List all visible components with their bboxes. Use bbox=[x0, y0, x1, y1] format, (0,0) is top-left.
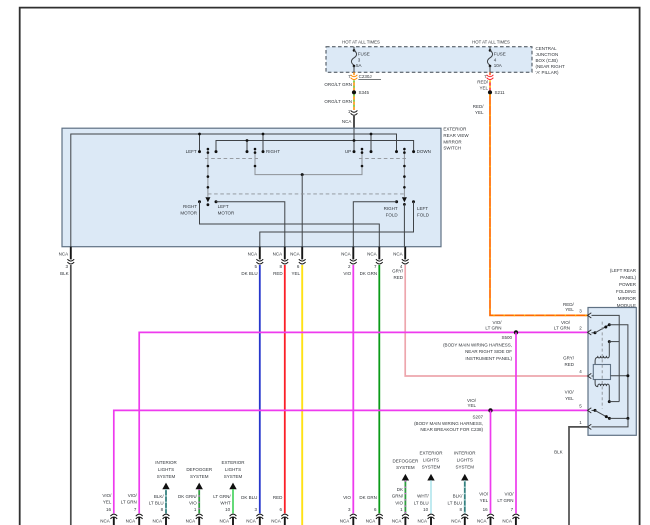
svg-text:EXTERIOR: EXTERIOR bbox=[419, 451, 443, 456]
label module wire color VIO/LT GRN bbox=[554, 320, 571, 331]
svg-text:NCA: NCA bbox=[246, 519, 256, 524]
svg-text:VIO/: VIO/ bbox=[561, 320, 571, 325]
switch wiper (fold select, right) bbox=[402, 148, 407, 203]
label wire color YEL bbox=[291, 271, 300, 276]
svg-text:GRY/: GRY/ bbox=[392, 268, 404, 273]
svg-text:5A: 5A bbox=[356, 63, 362, 68]
label wire color BLK/LT BLU bbox=[448, 494, 464, 506]
node contact DOWN bbox=[412, 150, 415, 153]
svg-text:YEL: YEL bbox=[103, 499, 112, 504]
connector bottom pin 1 (DKGRN/VIO) bbox=[402, 514, 409, 525]
module pin 1 connector bbox=[588, 424, 592, 429]
svg-text:NCA: NCA bbox=[367, 251, 377, 256]
svg-text:10: 10 bbox=[225, 507, 231, 512]
fuse 4 10A bbox=[487, 47, 492, 72]
svg-text:INTERIOR: INTERIOR bbox=[454, 451, 476, 456]
svg-text:BLK/: BLK/ bbox=[453, 494, 464, 499]
connector bottom pin 10 (WHT/LT BLU) bbox=[428, 514, 435, 525]
label RIGHT MOTOR bbox=[180, 204, 197, 216]
module pin 2 connector bbox=[588, 330, 592, 335]
svg-text:WHT: WHT bbox=[220, 501, 230, 506]
svg-text:SWITCH: SWITCH bbox=[443, 146, 461, 151]
svg-text:SYSTEM: SYSTEM bbox=[190, 474, 209, 479]
svg-text:NCA: NCA bbox=[392, 519, 402, 524]
connector NCA below switch pin 2 bbox=[350, 247, 357, 264]
node contact (right inner a) bbox=[370, 150, 373, 153]
svg-text:POWER: POWER bbox=[619, 282, 637, 287]
svg-text:VIO/: VIO/ bbox=[479, 492, 489, 497]
svg-text:VIO: VIO bbox=[189, 501, 197, 506]
label EXTERIOR REAR VIEW MIRROR SWITCH bbox=[443, 126, 469, 150]
label DEFOGGER SYSTEM label bbox=[186, 467, 213, 479]
label wire color VIO/YEL bbox=[479, 492, 489, 504]
svg-text:DK BLU: DK BLU bbox=[241, 495, 257, 500]
wire VIO/LT GRN net (module pin 2 / S500) bbox=[139, 332, 588, 513]
svg-text:BLK: BLK bbox=[554, 449, 563, 454]
svg-text:NCA: NCA bbox=[477, 519, 487, 524]
label wire color BLK/LT BLU bbox=[149, 494, 165, 506]
svg-text:MIRROR: MIRROR bbox=[618, 296, 637, 301]
wire VIO/LT GRN drop from S500 bbox=[515, 332, 517, 513]
svg-text:RED: RED bbox=[273, 495, 283, 500]
module relay arm (pin 5) bbox=[592, 409, 611, 420]
switch wiper (mirror select, left) bbox=[205, 148, 210, 206]
label wire color WHT/LT BLU bbox=[414, 494, 430, 506]
svg-text:LT GRN: LT GRN bbox=[497, 498, 513, 503]
svg-text:16: 16 bbox=[483, 507, 489, 512]
svg-text:SYSTEM: SYSTEM bbox=[224, 474, 243, 479]
label DEFOGGER SYSTEM label bbox=[393, 458, 420, 470]
connector bottom pin 6 (RED) bbox=[281, 514, 288, 525]
label S207 splice note bbox=[414, 415, 483, 433]
splice S211 bbox=[488, 90, 492, 94]
svg-text:NCA: NCA bbox=[342, 119, 352, 124]
svg-text:DK GRN/: DK GRN/ bbox=[178, 494, 198, 499]
svg-text:RIGHT: RIGHT bbox=[183, 204, 197, 209]
svg-text:FUSE: FUSE bbox=[494, 51, 506, 56]
svg-text:'A' PILLAR): 'A' PILLAR) bbox=[536, 70, 559, 75]
label wire color ORG/LT GRN (upper) bbox=[324, 82, 352, 87]
wire YEL tap drop bbox=[301, 175, 303, 247]
node contact LEFT FOLD bbox=[412, 200, 415, 203]
module motor M bbox=[593, 365, 610, 380]
connector bottom pin 8 (BLK/LT BLU) bbox=[461, 514, 468, 525]
svg-text:SYSTEM: SYSTEM bbox=[456, 464, 475, 469]
connector pin 1 at switch bbox=[351, 110, 358, 115]
power folding mirror module box bbox=[588, 308, 636, 436]
svg-text:S345: S345 bbox=[359, 90, 370, 95]
svg-text:FOLDING: FOLDING bbox=[616, 289, 637, 294]
wire drop to RIGHT contact bbox=[262, 134, 264, 152]
svg-text:GRN/: GRN/ bbox=[392, 494, 404, 499]
svg-text:MOTOR: MOTOR bbox=[218, 210, 235, 215]
svg-text:YEL: YEL bbox=[565, 396, 574, 401]
svg-text:MOTOR: MOTOR bbox=[180, 210, 197, 215]
wire DK BLU (switch pin 5 to bottom connector) bbox=[259, 265, 261, 513]
svg-text:NCA: NCA bbox=[290, 251, 300, 256]
node contact RIGHT FOLD bbox=[395, 200, 398, 203]
svg-text:LT GRN/: LT GRN/ bbox=[213, 494, 231, 499]
svg-text:YEL: YEL bbox=[479, 86, 488, 91]
svg-text:MIRROR: MIRROR bbox=[443, 139, 462, 144]
svg-text:VIO/: VIO/ bbox=[565, 389, 575, 394]
label S500 splice note bbox=[443, 335, 512, 361]
node contact LEFT MOTOR bbox=[215, 200, 218, 203]
svg-text:RED: RED bbox=[393, 275, 403, 280]
svg-text:RED/: RED/ bbox=[477, 80, 489, 85]
label wire color DK BLU bbox=[241, 495, 257, 500]
wire stub to EXTERIOR LIGHTS SYSTEM bbox=[232, 489, 234, 513]
svg-text:REAR VIEW: REAR VIEW bbox=[443, 133, 469, 138]
wire LEFT MOTOR contact to pin 8 bbox=[216, 202, 285, 247]
mechanical link (left rocker) bbox=[205, 158, 258, 160]
svg-text:HOT AT ALL TIMES: HOT AT ALL TIMES bbox=[472, 39, 510, 44]
module relay arm (pin 2) bbox=[592, 323, 611, 334]
wire LEFT FOLD contact to pin 5 bbox=[260, 202, 414, 247]
wire DK GRN (switch pin 7 to bottom connector) bbox=[378, 265, 380, 513]
svg-text:EXTERIOR: EXTERIOR bbox=[443, 126, 467, 131]
wire ORG/LT GRN (C230J to S345) bbox=[353, 80, 355, 90]
connector bottom pin 1 (DK GRN/VIO) bbox=[196, 514, 203, 525]
node fold wiper contact bbox=[403, 203, 406, 206]
connector NCA below switch pin 4 bbox=[402, 247, 409, 264]
wire stub to INTERIOR LIGHTS SYSTEM bbox=[165, 489, 167, 513]
connector bottom pin 3 (VIO) bbox=[350, 514, 357, 525]
wire RIGHT FOLD contact to pin 2 bbox=[353, 202, 396, 247]
svg-text:CENTRAL: CENTRAL bbox=[536, 46, 558, 51]
svg-text:FUSE: FUSE bbox=[358, 51, 370, 56]
svg-text:NCA: NCA bbox=[417, 519, 427, 524]
svg-text:RIGHT: RIGHT bbox=[266, 149, 280, 154]
module wire motor to bus bbox=[611, 375, 628, 377]
arrow to EXTERIOR LIGHTS SYSTEM bbox=[229, 483, 236, 490]
connector NCA below switch pin 5 bbox=[256, 247, 263, 264]
wire fuse 3 to connector C230J bbox=[353, 72, 355, 75]
label wire color LT GRN/WHT bbox=[213, 494, 231, 506]
module wire pin 3 to field windings bbox=[592, 315, 620, 401]
label fuse 4 value bbox=[494, 51, 506, 62]
svg-text:LIGHTS: LIGHTS bbox=[225, 467, 241, 472]
svg-text:NCA: NCA bbox=[100, 519, 110, 524]
connector C230J pin 7 bbox=[351, 75, 358, 80]
label wire color DK GRN bbox=[359, 495, 377, 500]
svg-text:BLK: BLK bbox=[60, 271, 69, 276]
label module wire color VIO/YEL bbox=[565, 389, 575, 401]
svg-text:NCA: NCA bbox=[393, 251, 403, 256]
splice S500 bbox=[514, 330, 518, 334]
svg-text:UP: UP bbox=[345, 149, 351, 154]
svg-text:NCA: NCA bbox=[502, 519, 512, 524]
svg-text:LT BLU: LT BLU bbox=[448, 500, 463, 505]
mechanical link (right rocker) bbox=[359, 158, 408, 160]
label wire color VIO/LT GRN bbox=[497, 492, 514, 504]
splice S345 bbox=[352, 90, 356, 94]
svg-text:EXTERIOR: EXTERIOR bbox=[221, 460, 245, 465]
arrow to INTERIOR LIGHTS SYSTEM bbox=[461, 474, 468, 481]
svg-text:BOX (CJB): BOX (CJB) bbox=[536, 58, 559, 63]
svg-text:PANEL): PANEL) bbox=[620, 275, 636, 280]
label EXTERIOR LIGHTS SYSTEM label bbox=[419, 451, 443, 470]
svg-text:(BODY MAIN WIRING HARNESS,: (BODY MAIN WIRING HARNESS, bbox=[414, 421, 483, 426]
label EXTERIOR LIGHTS SYSTEM label bbox=[221, 460, 245, 479]
svg-text:YEL: YEL bbox=[467, 403, 476, 408]
splice S207 bbox=[488, 408, 492, 412]
arrow to DEFOGGER SYSTEM bbox=[402, 474, 409, 481]
module junction field bottom bbox=[608, 400, 611, 403]
wire drop to contact x247 bbox=[246, 141, 248, 152]
svg-text:VIO: VIO bbox=[343, 271, 351, 276]
module wire field bottom junction bbox=[609, 401, 619, 403]
label RIGHT FOLD bbox=[384, 206, 399, 217]
svg-text:LT GRN: LT GRN bbox=[485, 326, 501, 331]
wire BLK (module pin 1 to page bottom) bbox=[569, 427, 588, 525]
exterior rear view mirror switch box bbox=[62, 128, 441, 247]
wire ORG/LT GRN (S345 to switch connector) bbox=[353, 94, 355, 110]
connector bottom pin 16 (VIO/YEL) bbox=[487, 514, 494, 525]
junction YEL tap bbox=[301, 173, 304, 176]
connector bottom pin 10 (LT GRN/WHT) bbox=[230, 514, 237, 525]
label wire color DK GRN/VIO bbox=[178, 494, 198, 506]
svg-text:SYSTEM: SYSTEM bbox=[422, 464, 441, 469]
connector bottom pin 6 (DK GRN) bbox=[376, 514, 383, 525]
connector NCA below switch pin 8 bbox=[281, 247, 288, 264]
label wire color RED bbox=[273, 271, 283, 276]
node contact UP bbox=[353, 150, 356, 153]
wire RED/YEL (S211 to mirror module pin 3) bbox=[490, 94, 588, 315]
label CENTRAL JUNCTION BOX (CJB) (NEAR RIGHT A PILLAR) bbox=[536, 46, 566, 75]
svg-text:FOLD: FOLD bbox=[417, 212, 430, 217]
svg-text:VIO/: VIO/ bbox=[504, 492, 514, 497]
svg-text:NCA: NCA bbox=[152, 519, 162, 524]
svg-text:YEL: YEL bbox=[475, 110, 484, 115]
svg-text:DOWN: DOWN bbox=[417, 149, 431, 154]
svg-text:RED: RED bbox=[564, 362, 574, 367]
label module wire color RED/YEL bbox=[563, 302, 575, 312]
node contact (left inner b) bbox=[246, 150, 249, 153]
arrow to DEFOGGER SYSTEM bbox=[196, 483, 203, 490]
label wire color ORG/LT GRN (lower) bbox=[324, 99, 352, 104]
wire GRY/RED (switch pin 4 to module pin 4) bbox=[405, 265, 588, 376]
svg-text:ORG/LT GRN: ORG/LT GRN bbox=[324, 82, 352, 87]
svg-text:NCA: NCA bbox=[59, 251, 69, 256]
svg-text:S500: S500 bbox=[501, 335, 512, 340]
svg-text:LIGHTS: LIGHTS bbox=[158, 467, 174, 472]
svg-text:S207: S207 bbox=[472, 415, 483, 420]
svg-text:SYSTEM: SYSTEM bbox=[157, 474, 176, 479]
svg-text:WHT/: WHT/ bbox=[417, 494, 429, 499]
svg-text:VIO/: VIO/ bbox=[492, 320, 502, 325]
module junction motor bus bbox=[626, 374, 629, 377]
mechanical link (select wipers) bbox=[208, 193, 405, 195]
svg-text:RIGHT: RIGHT bbox=[384, 206, 398, 211]
wire stub to INTERIOR LIGHTS SYSTEM bbox=[464, 480, 466, 513]
svg-text:(NEAR RIGHT: (NEAR RIGHT bbox=[536, 64, 566, 69]
label C230J bbox=[358, 74, 381, 80]
label wire color VIO bbox=[343, 495, 351, 500]
wire VIO/YEL drop from S207 bbox=[490, 410, 492, 513]
label wire color RED bbox=[273, 495, 283, 500]
wire YEL (switch pin 6 to page bottom) bbox=[301, 265, 303, 525]
connector NCA below switch pin 7 bbox=[376, 247, 383, 264]
svg-text:HOT AT ALL TIMES: HOT AT ALL TIMES bbox=[342, 39, 380, 44]
svg-text:NCA: NCA bbox=[186, 519, 196, 524]
connector NCA below switch pin 6 bbox=[299, 247, 306, 264]
module mechanical link (dashed) bbox=[601, 322, 603, 409]
connector bottom pin 3 (DK BLU) bbox=[256, 514, 263, 525]
svg-text:NEAR BREAKOUT FOR C238): NEAR BREAKOUT FOR C238) bbox=[420, 427, 483, 432]
junction NCA on second bus bbox=[353, 139, 356, 142]
svg-text:INSTRUMENT PANEL): INSTRUMENT PANEL) bbox=[465, 356, 512, 361]
wire fold contact to pin 4 bbox=[403, 204, 405, 246]
svg-text:(LEFT REAR: (LEFT REAR bbox=[610, 268, 637, 273]
svg-text:GRY/: GRY/ bbox=[563, 356, 575, 361]
label module wire color GRY/RED bbox=[563, 356, 575, 367]
svg-text:ORG/LT GRN: ORG/LT GRN bbox=[324, 99, 352, 104]
svg-text:LT GRN: LT GRN bbox=[554, 326, 570, 331]
wire VIO/YEL net (module pin 5 / S207) bbox=[114, 410, 588, 513]
svg-text:DK GRN: DK GRN bbox=[359, 495, 377, 500]
wire NCA feed inside switch to UP contact bbox=[353, 129, 355, 152]
module junction bus / ground bbox=[626, 417, 629, 420]
central junction box (CJB) bbox=[326, 47, 532, 72]
svg-text:NCA: NCA bbox=[451, 519, 461, 524]
label wire color DKGRN/VIO bbox=[392, 487, 404, 506]
svg-text:VIO/: VIO/ bbox=[128, 493, 138, 498]
svg-text:NCA: NCA bbox=[341, 251, 351, 256]
svg-text:DEFOGGER: DEFOGGER bbox=[393, 458, 420, 463]
module wire field top junction bbox=[609, 341, 619, 343]
label wire color DK BLU bbox=[241, 271, 257, 276]
label LEFT FOLD bbox=[417, 206, 430, 217]
wire drop to contact x371 bbox=[370, 134, 372, 152]
wire RIGHT MOTOR contact to pin 7 bbox=[200, 202, 380, 247]
label wire color BLK bbox=[60, 271, 69, 276]
module wire arm contact to motor bus bbox=[609, 325, 628, 419]
svg-text:BLK/: BLK/ bbox=[154, 494, 165, 499]
svg-text:NEAR RIGHT SIDE OF: NEAR RIGHT SIDE OF bbox=[465, 349, 512, 354]
connector bottom pin 7 (VIO/LT GRN) bbox=[513, 514, 520, 525]
wire stub to EXTERIOR LIGHTS SYSTEM bbox=[430, 480, 432, 513]
label VIO/LT GRN left of S500 bbox=[485, 320, 502, 331]
svg-text:NCA: NCA bbox=[219, 519, 229, 524]
svg-text:INTERIOR: INTERIOR bbox=[155, 460, 177, 465]
svg-text:(BODY MAIN WIRING HARNESS,: (BODY MAIN WIRING HARNESS, bbox=[443, 343, 512, 348]
svg-text:LT GRN: LT GRN bbox=[121, 499, 137, 504]
node contact (left inner a) bbox=[215, 150, 218, 153]
fuse 3 5A bbox=[351, 47, 356, 72]
svg-text:NCA: NCA bbox=[366, 519, 376, 524]
svg-text:NCA: NCA bbox=[248, 251, 258, 256]
svg-text:LEFT: LEFT bbox=[186, 149, 197, 154]
wire VIO (switch pin 2 to bottom connector) bbox=[352, 265, 354, 513]
svg-text:S211: S211 bbox=[495, 90, 506, 95]
module field coil (upper) bbox=[595, 342, 609, 365]
svg-text:JUNCTION: JUNCTION bbox=[536, 52, 559, 57]
svg-text:10A: 10A bbox=[494, 63, 502, 68]
svg-text:LEFT: LEFT bbox=[218, 204, 229, 209]
wire RED (switch pin 8 to bottom connector) bbox=[284, 265, 286, 513]
label LEFT MOTOR bbox=[218, 204, 235, 216]
wire NCA into switch bbox=[353, 116, 355, 129]
svg-text:YEL: YEL bbox=[291, 271, 300, 276]
svg-text:NCA: NCA bbox=[340, 519, 350, 524]
label wire color RED/YEL (lower) bbox=[473, 104, 485, 115]
svg-text:DK GRN: DK GRN bbox=[360, 271, 378, 276]
module field coil (lower) bbox=[595, 380, 609, 402]
arrow to EXTERIOR LIGHTS SYSTEM bbox=[427, 474, 434, 481]
svg-text:C230J: C230J bbox=[359, 74, 372, 79]
svg-text:RED: RED bbox=[273, 271, 283, 276]
label fuse 3 value bbox=[358, 51, 370, 62]
wire stub to DEFOGGER SYSTEM bbox=[198, 489, 200, 513]
svg-text:RED/: RED/ bbox=[473, 104, 485, 109]
node contact RIGHT MOTOR bbox=[198, 200, 201, 203]
svg-text:YEL: YEL bbox=[480, 498, 489, 503]
node contact RIGHT bbox=[262, 150, 265, 153]
module pin 4 connector bbox=[588, 373, 592, 378]
connector NCA below switch pin 3 bbox=[67, 247, 74, 264]
svg-text:10: 10 bbox=[423, 507, 429, 512]
svg-text:LEFT: LEFT bbox=[417, 206, 428, 211]
svg-text:SYSTEM: SYSTEM bbox=[396, 465, 415, 470]
module wire pin 1 ground riser bbox=[592, 418, 629, 427]
svg-text:VIO: VIO bbox=[395, 500, 403, 505]
label (LEFT REAR PANEL) POWER FOLDING MIRROR MODULE bbox=[610, 268, 637, 308]
label VIO/YEL left of S207 bbox=[467, 398, 477, 408]
wire switch internal second bus bbox=[216, 141, 414, 152]
wire switch internal bus (pin 3 riser + top bus) bbox=[71, 134, 397, 247]
label wire color VIO/YEL bbox=[102, 493, 112, 505]
module junction field top bbox=[608, 340, 611, 343]
svg-text:VIO/: VIO/ bbox=[102, 493, 112, 498]
connector bottom pin 7 (VIO/LT GRN) bbox=[136, 514, 143, 525]
module wire pin 4 to motor bbox=[592, 375, 594, 377]
arrow to INTERIOR LIGHTS SYSTEM bbox=[162, 483, 169, 490]
node contact LEFT bbox=[198, 150, 201, 153]
label wire color VIO/LT GRN bbox=[121, 493, 138, 505]
label INTERIOR LIGHTS SYSTEM label bbox=[155, 460, 177, 479]
label wire color VIO bbox=[343, 271, 351, 276]
svg-text:YEL: YEL bbox=[565, 307, 574, 312]
module pin 5 connector bbox=[588, 408, 592, 413]
svg-text:LIGHTS: LIGHTS bbox=[457, 457, 473, 462]
label wire color DK GRN bbox=[360, 271, 378, 276]
svg-text:DEFOGGER: DEFOGGER bbox=[186, 467, 213, 472]
svg-text:NCA: NCA bbox=[126, 519, 136, 524]
wire RED/YEL (fuse 4 to S211) bbox=[489, 80, 491, 90]
svg-text:16: 16 bbox=[106, 507, 112, 512]
svg-text:LT BLU: LT BLU bbox=[149, 501, 164, 506]
svg-text:FOLD: FOLD bbox=[386, 212, 399, 217]
svg-text:VIO: VIO bbox=[343, 495, 351, 500]
svg-text:LT BLU: LT BLU bbox=[414, 500, 429, 505]
svg-text:DK BLU: DK BLU bbox=[241, 271, 257, 276]
node contact (right inner b) bbox=[395, 150, 398, 153]
svg-text:NCA: NCA bbox=[273, 251, 283, 256]
module pin 3 connector bbox=[588, 313, 592, 318]
switch wiper pair (motor commons) with YEL tap bbox=[254, 148, 364, 175]
wire stub to DEFOGGER SYSTEM bbox=[404, 480, 406, 513]
wire drop to LEFT contact bbox=[199, 134, 201, 152]
svg-text:LIGHTS: LIGHTS bbox=[423, 457, 439, 462]
connector bottom pin 16 (VIO/YEL) bbox=[110, 514, 117, 525]
connector pin 7 (fuse 4) bbox=[487, 75, 494, 80]
connector bottom pin 8 (BLK/LT BLU) bbox=[163, 514, 170, 525]
label wire color GRY/RED bbox=[392, 268, 404, 280]
module wire arm 2 contact to bus bbox=[609, 417, 628, 419]
label INTERIOR LIGHTS SYSTEM label bbox=[454, 451, 476, 470]
svg-text:DK: DK bbox=[397, 487, 403, 492]
